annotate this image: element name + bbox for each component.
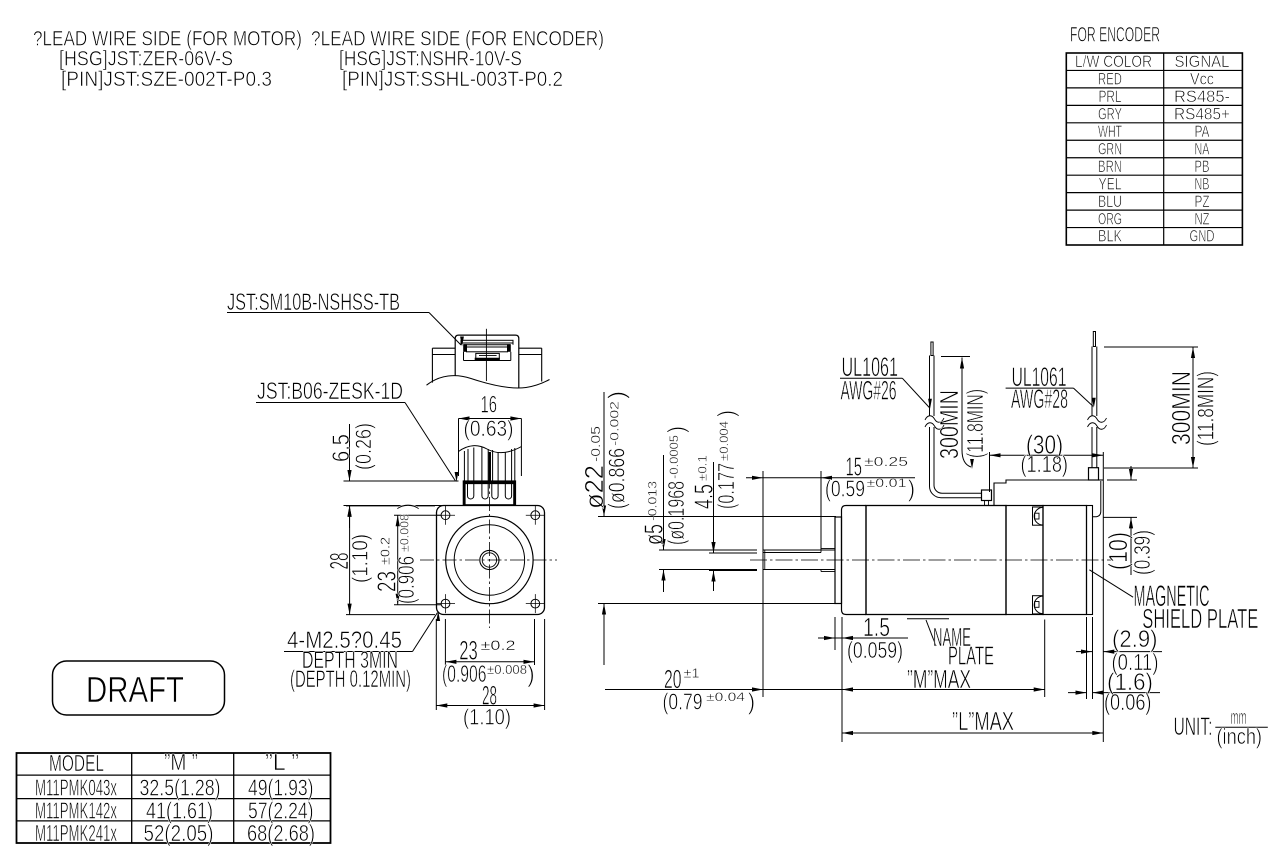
svg-text:UNIT:: UNIT: xyxy=(1174,713,1213,741)
svg-text:(11.8MIN): (11.8MIN) xyxy=(1193,371,1219,446)
svg-text:(1.10): (1.10) xyxy=(463,705,511,730)
svg-text:±0.01: ±0.01 xyxy=(867,476,907,490)
svg-text:): ) xyxy=(713,410,739,417)
svg-text:(DEPTH 0.12MIN): (DEPTH 0.12MIN) xyxy=(290,666,411,693)
svg-text:”L ”: ”L ” xyxy=(265,749,299,775)
pilot boss (side) xyxy=(835,517,842,604)
svg-text:): ) xyxy=(908,476,915,502)
svg-text:(1.18): (1.18) xyxy=(1021,451,1069,477)
rear cap xyxy=(1006,506,1043,615)
label JST:SM10B-NSHSS-TB with leader xyxy=(227,289,464,347)
rear clip bottom xyxy=(1033,596,1044,614)
svg-text:BLK: BLK xyxy=(1098,227,1122,246)
svg-text:(0.26): (0.26) xyxy=(351,423,376,470)
svg-text:(ø0.866: (ø0.866 xyxy=(604,448,630,509)
svg-text:(0.39): (0.39) xyxy=(1129,530,1155,575)
svg-text:): ) xyxy=(393,503,419,510)
svg-text:±0.004: ±0.004 xyxy=(717,421,731,461)
svg-text:±0.008: ±0.008 xyxy=(487,662,527,677)
svg-text:(0.79: (0.79 xyxy=(663,689,703,715)
svg-text:M11PMK241x: M11PMK241x xyxy=(35,820,117,846)
svg-text:±0.04: ±0.04 xyxy=(706,690,745,704)
svg-text:PB: PB xyxy=(1195,157,1210,176)
front view centerline vertical xyxy=(488,452,490,628)
svg-text:GRN: GRN xyxy=(1098,139,1122,158)
svg-text:Vcc: Vcc xyxy=(1190,70,1214,89)
dimension 28 (1.10) vertical xyxy=(324,506,435,615)
side view centerline xyxy=(750,559,1113,561)
svg-text:JST:B06-ZESK-1D: JST:B06-ZESK-1D xyxy=(257,378,403,405)
svg-text:L/W COLOR: L/W COLOR xyxy=(1075,52,1152,71)
svg-text:68(2.68): 68(2.68) xyxy=(247,820,315,846)
inner ring circle xyxy=(454,525,524,595)
svg-text:): ) xyxy=(748,689,755,715)
encoder lead wire W2 xyxy=(1088,332,1107,468)
svg-text:AWG#28: AWG#28 xyxy=(1011,384,1068,414)
model table xyxy=(17,749,331,846)
svg-text:(0.06): (0.06) xyxy=(1104,689,1152,715)
front view flange square xyxy=(437,506,545,615)
svg-text:-0.0005: -0.0005 xyxy=(667,435,681,479)
svg-text:GND: GND xyxy=(1190,227,1215,246)
svg-text:(0.906: (0.906 xyxy=(393,556,419,604)
svg-text:±0.008: ±0.008 xyxy=(398,514,412,552)
shaft inner circle xyxy=(482,553,496,567)
svg-text:(0.059): (0.059) xyxy=(847,637,903,663)
svg-text:JST:SM10B-NSHSS-TB: JST:SM10B-NSHSS-TB xyxy=(227,289,400,316)
svg-text:NA: NA xyxy=(1195,139,1210,158)
svg-text:300MIN: 300MIN xyxy=(934,390,964,459)
svg-text:YEL: YEL xyxy=(1099,174,1122,193)
svg-text:-0.013: -0.013 xyxy=(646,481,660,521)
svg-text:16: 16 xyxy=(481,392,498,419)
svg-text:(inch): (inch) xyxy=(1217,724,1263,749)
dimension 20±1 and M MAX xyxy=(605,617,1045,742)
svg-text:-0.05: -0.05 xyxy=(588,426,603,462)
encoder wire connector block (side) xyxy=(1089,468,1099,480)
shaft xyxy=(763,549,835,572)
svg-text:[PIN]JST:SSHL-003T-P0.2: [PIN]JST:SSHL-003T-P0.2 xyxy=(342,68,563,91)
front view centerline horizontal xyxy=(420,559,557,561)
svg-text:[PIN]JST:SZE-002T-P0.3: [PIN]JST:SZE-002T-P0.3 xyxy=(61,68,272,91)
svg-text:FOR ENCODER: FOR ENCODER xyxy=(1070,24,1160,47)
svg-text:GRY: GRY xyxy=(1098,105,1122,124)
svg-text:”M”MAX: ”M”MAX xyxy=(907,664,971,694)
svg-text:PZ: PZ xyxy=(1195,192,1210,211)
label UL1061 AWG#26 with leader xyxy=(840,352,932,409)
svg-text:BLU: BLU xyxy=(1098,192,1122,211)
dimension (2.9) (0.11) xyxy=(1076,617,1162,699)
unit note mm/inch xyxy=(1174,707,1268,749)
connector B06 on motor top xyxy=(463,481,515,505)
connector detail SM10B housing xyxy=(427,329,550,388)
dimension 23±0.2 horizontal xyxy=(442,619,535,688)
dimension 16 (0.63) xyxy=(459,392,522,477)
dimension ø22 -0.05 xyxy=(579,391,836,665)
dimension L MAX xyxy=(842,706,1103,736)
svg-text:SHIELD PLATE: SHIELD PLATE xyxy=(1142,603,1258,634)
svg-text:(1.10): (1.10) xyxy=(348,534,373,583)
svg-text:(0.63): (0.63) xyxy=(464,416,514,441)
svg-text:(ø0.1968: (ø0.1968 xyxy=(663,481,689,545)
encoder housing xyxy=(1043,506,1087,615)
label 4-M2.5 tapped holes with leader xyxy=(284,611,440,693)
motor wire connector block (side) xyxy=(982,490,992,506)
shaft circle xyxy=(480,550,499,569)
encoder signal table xyxy=(1066,52,1242,246)
label JST:B06-ZESK-1D with leader xyxy=(256,378,458,482)
svg-text:RS485+: RS485+ xyxy=(1174,105,1230,124)
svg-text:PRL: PRL xyxy=(1099,87,1122,106)
svg-text:BRN: BRN xyxy=(1098,157,1122,176)
motor body xyxy=(866,506,1006,615)
svg-text:-0.002: -0.002 xyxy=(608,401,622,446)
dimension 15±0.25 xyxy=(746,452,915,698)
svg-text:(0.59: (0.59 xyxy=(825,476,865,502)
svg-text:): ) xyxy=(604,391,630,399)
dimension 300MIN encoder wire xyxy=(1104,347,1219,468)
label UL1061 AWG#28 with leader xyxy=(1006,362,1096,414)
svg-text:DRAFT: DRAFT xyxy=(86,669,184,710)
dimension (1.6) (0.06) xyxy=(1068,617,1160,715)
rear clip top xyxy=(1033,507,1044,525)
svg-text:(0.906: (0.906 xyxy=(442,661,487,688)
svg-text:NZ: NZ xyxy=(1195,209,1210,228)
svg-text:): ) xyxy=(528,661,535,688)
svg-text:MODEL: MODEL xyxy=(49,750,104,776)
dimension 6.5 (0.26) xyxy=(328,423,459,528)
svg-text:52(2.05): 52(2.05) xyxy=(144,820,214,846)
svg-text:PA: PA xyxy=(1195,122,1210,141)
svg-text:WHT: WHT xyxy=(1098,122,1122,141)
svg-text:ORG: ORG xyxy=(1098,209,1122,228)
dimension (10) (0.39) xyxy=(1103,466,1155,575)
svg-text:RS485-: RS485- xyxy=(1174,87,1230,106)
dimension (30) (1.18) xyxy=(990,430,1104,493)
dimension 1.5 (0.059) xyxy=(818,612,908,663)
motor lead wire W1 xyxy=(925,342,982,498)
dimension 23±0.2 vertical xyxy=(372,503,442,605)
svg-text:): ) xyxy=(663,426,689,433)
magnetic shield plate xyxy=(1087,506,1093,615)
pilot boss circle xyxy=(446,516,533,603)
svg-text:±0.1: ±0.1 xyxy=(696,455,710,481)
dimension 28 (1.10) horizontal xyxy=(436,619,544,730)
svg-text:SIGNAL: SIGNAL xyxy=(1175,52,1230,71)
dimension 4.5±0.1 xyxy=(689,410,758,591)
svg-text:”L”MAX: ”L”MAX xyxy=(952,706,1014,736)
svg-text:”M ”: ”M ” xyxy=(164,749,198,775)
svg-text:300MIN: 300MIN xyxy=(1166,371,1196,445)
label magnetic shield plate with leader xyxy=(1089,570,1258,634)
wire cover raised top xyxy=(994,480,1103,517)
svg-text:±0.2: ±0.2 xyxy=(378,537,393,565)
svg-text:RED: RED xyxy=(1098,70,1122,89)
dimension 300MIN motor wire xyxy=(934,357,988,470)
dimension ø5 -0.013 xyxy=(639,426,758,592)
svg-text:±0.2: ±0.2 xyxy=(481,637,516,653)
draft stamp xyxy=(53,661,225,715)
svg-text:NB: NB xyxy=(1195,174,1210,193)
motor lead wires (front view) xyxy=(459,446,522,481)
front end bell xyxy=(842,506,867,615)
label name plate with leader xyxy=(907,619,994,671)
svg-text:(11.8MIN): (11.8MIN) xyxy=(962,389,988,458)
svg-text:±1: ±1 xyxy=(684,666,700,681)
svg-text:(0.177: (0.177 xyxy=(713,463,739,509)
svg-text:AWG#26: AWG#26 xyxy=(841,376,897,406)
svg-text:±0.25: ±0.25 xyxy=(864,454,908,469)
mounting holes xyxy=(436,506,545,613)
extension line right end xyxy=(1102,452,1104,742)
